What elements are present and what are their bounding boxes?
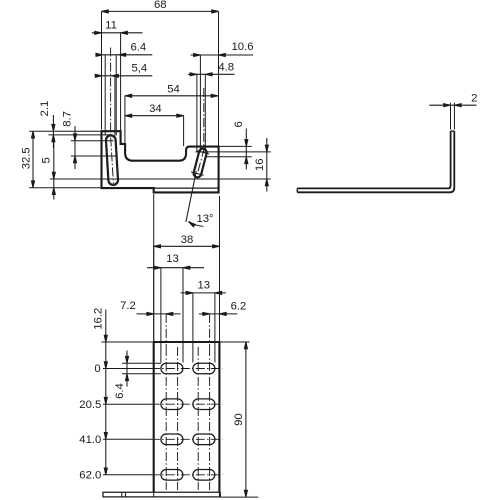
side view: L-profile horizontal leg (2 thick lines) xyxy=(297,187,448,189)
dimension 6.2 xyxy=(199,313,237,315)
front view: left mounting slot inner contour xyxy=(107,136,118,184)
dimension 6.4 (slot top width) xyxy=(95,54,152,56)
svg-text:2.1: 2.1 xyxy=(39,101,51,117)
slot row at y=439.3 right xyxy=(193,434,215,445)
dimension 38 (plate width) xyxy=(154,245,220,247)
front view: left slot center line (dash-dot) xyxy=(111,48,114,184)
side view: leg left end cap xyxy=(296,188,298,192)
svg-text:6: 6 xyxy=(233,121,245,127)
dimension 34 (channel floor width) xyxy=(125,115,184,117)
front view: right mounting slot inner contour xyxy=(194,149,206,176)
svg-text:11: 11 xyxy=(105,20,117,32)
front view: bracket profile outline xyxy=(102,131,219,192)
svg-text:68: 68 xyxy=(154,0,167,11)
row 41.0 ladder xyxy=(104,433,107,440)
dimension 2 (material thickness) xyxy=(429,104,476,106)
svg-text:6.4: 6.4 xyxy=(114,383,126,399)
dimension 32.5 (overall height) xyxy=(32,131,34,188)
svg-text:13: 13 xyxy=(166,253,179,265)
extension line at y=179 (shared with dim 16) xyxy=(50,178,271,180)
dimension 6.4 (slot height) xyxy=(126,351,128,387)
svg-text:41.0: 41.0 xyxy=(79,434,101,446)
svg-text:2: 2 xyxy=(471,93,477,105)
svg-text:7.2: 7.2 xyxy=(120,300,136,312)
svg-text:54: 54 xyxy=(167,83,180,95)
vertical hole center lines (dash-dot) xyxy=(165,347,167,490)
dimension 10.6 xyxy=(191,54,254,56)
slot row at y=368.5 right xyxy=(193,363,215,374)
svg-text:38: 38 xyxy=(181,234,194,246)
slot row at y=474.8 left xyxy=(161,470,183,481)
dimension 6 xyxy=(245,129,247,170)
slot row at y=474.8 right xyxy=(193,470,215,481)
svg-text:5,4: 5,4 xyxy=(131,63,147,75)
svg-text:0: 0 xyxy=(94,363,100,375)
svg-text:90: 90 xyxy=(233,413,245,426)
svg-text:62.0: 62.0 xyxy=(79,470,101,482)
dimension 2.1 xyxy=(52,115,54,148)
upper center line extensions for 7.2/6.2 xyxy=(165,314,167,347)
plate top extension to left xyxy=(102,341,154,343)
row center line (dash-dot) xyxy=(151,368,223,370)
dimension 7.2 xyxy=(137,313,181,315)
row 62.0 ladder xyxy=(104,468,107,475)
slot row at y=368.5 left xyxy=(161,363,183,374)
svg-text:6.4: 6.4 xyxy=(130,42,146,54)
dimension 11 xyxy=(92,32,143,34)
side view: vertical leg top end cap xyxy=(451,130,455,132)
row center line (dash-dot) xyxy=(151,474,223,476)
svg-text:8.7: 8.7 xyxy=(61,111,73,127)
dimension 4.8 xyxy=(188,73,235,75)
bottom view: base flange strip xyxy=(103,492,220,497)
bottom view: plate outline xyxy=(154,342,220,492)
dimension 5 xyxy=(53,140,55,200)
row 20.5 ladder xyxy=(104,397,107,404)
svg-text:13: 13 xyxy=(198,280,211,292)
dimension 16.2 + running dimension ladder line xyxy=(105,310,107,475)
slot row at y=439.3 left xyxy=(161,434,183,445)
flange tick marks xyxy=(121,492,123,497)
dimension 16 xyxy=(266,138,268,192)
front view: right slot center line (dash-dot) xyxy=(197,88,203,174)
front view: right mounting slot outer contour (13 deg) xyxy=(193,148,207,178)
svg-text:16.2: 16.2 xyxy=(92,308,104,330)
front view: right slot hole-center cross ticks xyxy=(197,151,210,154)
row center line (dash-dot) xyxy=(151,438,223,440)
dimension 54 (channel width) xyxy=(125,95,218,97)
plate side edges through flange xyxy=(153,492,155,497)
row center line (dash-dot) xyxy=(151,403,223,405)
dimension 8.7 xyxy=(74,126,76,169)
front view: bottom edge continuation across right portion xyxy=(154,187,219,189)
dimension 13 (left slot) xyxy=(147,267,204,269)
svg-text:32.5: 32.5 xyxy=(20,147,32,169)
projection line right xyxy=(219,196,221,342)
13 degree angle arc with arrowhead xyxy=(189,221,204,226)
dimension 68 (overall width) xyxy=(102,10,219,12)
dimension 90 (plate height) xyxy=(245,342,247,497)
dimension 13 (right slot) xyxy=(181,292,227,294)
row 0 ladder xyxy=(104,362,107,369)
svg-text:13°: 13° xyxy=(196,213,213,225)
dimension 5,4 (slot bottom width) xyxy=(98,75,153,77)
svg-text:34: 34 xyxy=(149,103,162,115)
svg-text:16: 16 xyxy=(254,159,266,172)
dimension 13 degrees - slot axis leader line xyxy=(186,171,196,222)
svg-text:5: 5 xyxy=(40,157,52,163)
svg-text:4.8: 4.8 xyxy=(218,62,234,74)
slot row at y=404.2 left xyxy=(161,399,183,410)
svg-text:6.2: 6.2 xyxy=(231,301,247,313)
slot row at y=404.2 right xyxy=(193,399,215,410)
svg-text:20.5: 20.5 xyxy=(79,399,101,411)
svg-text:10.6: 10.6 xyxy=(232,41,254,53)
front view: left mounting slot outer contour xyxy=(106,135,119,186)
projection line left xyxy=(153,194,155,342)
extension line from slot right edge xyxy=(114,76,116,136)
